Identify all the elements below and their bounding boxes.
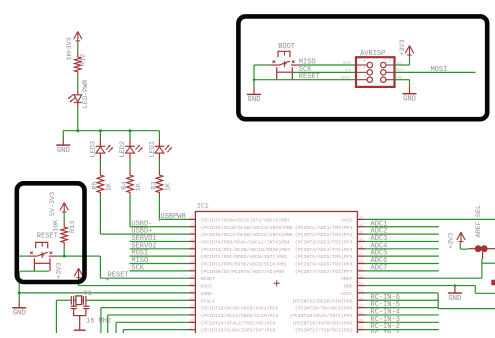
wire row n9 right (365, 285, 475, 287)
svg-text:38: 38 (359, 246, 363, 250)
wire gnd rail (63, 130, 159, 132)
wire switch gnd leg (20, 270, 49, 272)
LED2 emission arrows (136, 145, 140, 150)
resistor R12 (75, 52, 82, 75)
wire net RC-IN-2 (365, 329, 439, 331)
svg-text:AVRISP: AVRISP (360, 50, 385, 58)
svg-text:3: 3 (364, 67, 366, 71)
svg-text:(PCINT4/PDO/OC4A/ADC11/INT4)PB: (PCINT4/PDO/OC4A/ADC11/INT4)PB4 (201, 239, 290, 245)
wire XTAL left segment (56, 299, 71, 301)
svg-text:32: 32 (359, 305, 363, 309)
wire to IC pin row 2 (100, 233, 188, 235)
wire row n13 (108, 314, 189, 316)
wire rail to LED3 (99, 131, 101, 140)
pushbutton S2 BOOT (270, 51, 300, 80)
junction GND/RESET (ISP) (253, 78, 256, 81)
svg-text:13: 13 (190, 224, 194, 228)
wire row n12 down (100, 308, 102, 333)
svg-text:(PCINT0/SS/PCINT0/ADC7/AD)PB0: (PCINT0/SS/PCINT0/ADC7/AD)PB0 (201, 269, 285, 275)
wire GND right down (409, 80, 411, 87)
wire row n12 (101, 307, 189, 309)
+3V3 supply (ISP) (405, 46, 413, 57)
svg-text:RESET: RESET (341, 77, 351, 81)
svg-text:LED3: LED3 (89, 141, 97, 157)
svg-text:41: 41 (359, 224, 363, 228)
svg-text:GND: GND (448, 295, 461, 303)
wire LED2 to R4 (129, 159, 131, 169)
wire net SERVO2 (130, 248, 189, 250)
svg-text:33: 33 (359, 297, 363, 301)
wire net RC-IN-3 (365, 321, 439, 323)
+3V3 supply bottom box (74, 268, 82, 279)
LED1 emission arrows (165, 145, 169, 150)
wire R4 down (129, 196, 131, 227)
svg-text:GND: GND (13, 310, 26, 318)
svg-text:+3V3: +3V3 (66, 37, 74, 53)
svg-text:(PCINT7/ADC7/TDI)PF7: (PCINT7/ADC7/TDI)PF7 (295, 269, 353, 275)
wire net MISO (130, 263, 189, 265)
junction GND/n9 (454, 284, 457, 287)
wire net ADC5 (365, 255, 439, 257)
wire net MOSI (130, 255, 189, 257)
svg-text:R4: R4 (121, 181, 129, 189)
svg-text:16: 16 (190, 246, 194, 250)
svg-text:(PCINT2/ADC2/TDO)PF2: (PCINT2/ADC2/TDO)PF2 (295, 232, 353, 238)
wire row n15 (123, 329, 188, 331)
junction R13/RESET (63, 255, 66, 258)
svg-text:5V-3V3: 5V-3V3 (49, 192, 57, 216)
svg-text:(PCINT15/CLKO/ICP3/INT)PC5: (PCINT15/CLKO/ICP3/INT)PC5 (201, 328, 276, 333)
LED LED2 (125, 140, 135, 160)
svg-text:35: 35 (359, 268, 363, 272)
wire net ADC6 (365, 263, 439, 265)
svg-text:29: 29 (359, 327, 363, 331)
svg-text:UVCC: UVCC (201, 284, 213, 290)
ground G5 (ISP) (403, 86, 417, 103)
svg-text:24: 24 (190, 305, 194, 309)
svg-text:Y1: Y1 (84, 290, 92, 298)
svg-text:15: 15 (190, 238, 194, 242)
svg-text:(PCINT14/XTAL2/TOSC/OC)PC4: (PCINT14/XTAL2/TOSC/OC)PC4 (201, 320, 276, 326)
RESET label origin cross (106, 278, 109, 281)
wire net RC-IN-4 (365, 314, 439, 316)
svg-text:(PCINT20/T0/ADC6)PD5: (PCINT20/T0/ADC6)PD5 (295, 306, 353, 312)
svg-text:+3V3: +3V3 (399, 39, 407, 55)
svg-text:GND: GND (57, 147, 70, 155)
svg-text:BOOT: BOOT (278, 43, 295, 51)
wire n10 exit right (438, 308, 495, 310)
wire net RC-IN-6 (365, 299, 439, 301)
wire RESET (ISP) (254, 79, 356, 81)
svg-text:(PCINT3/ADC3/TDI)PF3: (PCINT3/ADC3/TDI)PF3 (295, 239, 353, 245)
svg-text:(PCINT2/PDI/MOSI/ADC9/INT2)PB2: (PCINT2/PDI/MOSI/ADC9/INT2)PB2 (201, 254, 287, 260)
wire net ADC3 (365, 240, 439, 242)
wire GND row n10 (19, 292, 188, 294)
svg-text:R12: R12 (80, 54, 88, 66)
svg-text:MOSI: MOSI (431, 66, 448, 74)
wire UVCC row (79, 285, 189, 287)
ground G1 (56, 138, 70, 155)
highlight box RESET (bottom left) (17, 183, 85, 282)
5V-3V3 supply (60, 203, 68, 214)
svg-text:(PCINT17/TXD/OC2)PD2: (PCINT17/TXD/OC2)PD2 (295, 328, 353, 333)
wire R3 down (158, 196, 160, 220)
svg-text:(PCINT1/PDO/MISO/ADC8/SCLK)PB1: (PCINT1/PDO/MISO/ADC8/SCLK)PB1 (201, 262, 287, 268)
wire AVCC to edge (365, 218, 495, 220)
wire GND left drop (ISP box) (253, 65, 255, 87)
resistor R13 10K (61, 222, 68, 246)
solder jumper SJ1 AREF-SEL (468, 245, 495, 258)
svg-text:AVCC: AVCC (341, 217, 353, 223)
wire rail to gnd (62, 131, 64, 138)
svg-text:(PCINT18/INT0/SDA)PD3: (PCINT18/INT0/SDA)PD3 (292, 320, 353, 326)
svg-text:USBPWR: USBPWR (161, 213, 187, 221)
junction rail/LED-PWR (76, 129, 79, 132)
wire GND right (ISP) (395, 79, 410, 81)
wire net ADC1 (365, 226, 439, 228)
svg-text:(PCINT19/OC2A/INT1)PD4: (PCINT19/OC2A/INT1)PD4 (289, 313, 352, 319)
svg-text:RESET: RESET (299, 73, 320, 81)
svg-text:30: 30 (359, 319, 363, 323)
wire to BOOT switch (254, 64, 270, 66)
svg-text:17: 17 (190, 253, 194, 257)
IC IC1 body (195, 212, 357, 337)
svg-text:UGND: UGND (201, 291, 213, 297)
wire net ADC4 (365, 248, 439, 250)
resistor R5 1K (97, 170, 104, 196)
wire n10 right down (437, 293, 439, 309)
+3V3 supply P1 (74, 32, 82, 43)
wire R12 to LED-PWR (77, 75, 79, 90)
wire GND left vertical (18, 271, 20, 300)
svg-text:LED2: LED2 (119, 141, 127, 157)
svg-text:25: 25 (190, 312, 194, 316)
ground G3 (448, 286, 462, 303)
wire RESET vertical (99, 256, 101, 278)
svg-text:AREF: AREF (341, 276, 353, 282)
USBPWR label origin cross (158, 218, 161, 221)
wire net RC-IN-5 (365, 307, 439, 309)
svg-text:R13: R13 (69, 221, 77, 233)
wire XTAL right segment (86, 299, 188, 301)
svg-text:R3: R3 (150, 181, 158, 189)
svg-text:1K: 1K (135, 182, 143, 191)
svg-text:(PCINT6/ADC6/TDO)PF6: (PCINT6/ADC6/TDO)PF6 (295, 262, 353, 268)
wire RESET left (19, 255, 28, 257)
wire row n10 right (365, 292, 438, 294)
resistor R4 1K (127, 170, 134, 196)
wire VCC up (409, 56, 411, 65)
svg-text:43: 43 (359, 283, 363, 287)
svg-text:(PCINT5/ADC5/TMS)PF5: (PCINT5/ADC5/TMS)PF5 (295, 254, 353, 260)
+3V3 supply near AREF (457, 232, 465, 243)
ISP pin name labels (341, 60, 405, 81)
svg-text:18: 18 (190, 261, 194, 265)
ground G2 (12, 300, 26, 317)
wire rail to LED1 (158, 131, 160, 140)
svg-text:GND: GND (403, 95, 416, 103)
wire n9 exit right (475, 292, 495, 294)
IC pin stubs, pin numbers and pin names (189, 216, 366, 333)
wire RESET to IC (100, 277, 188, 279)
svg-text:31: 31 (359, 312, 363, 316)
svg-text:40: 40 (359, 231, 363, 235)
svg-text:AREF-SEL: AREF-SEL (475, 205, 483, 238)
svg-text:ADC7: ADC7 (371, 264, 388, 272)
svg-text:6: 6 (389, 74, 391, 78)
wire LED-PWR to rail (77, 109, 79, 131)
svg-text:RESET: RESET (201, 276, 216, 282)
wire R5 down (99, 196, 101, 235)
wire row n15 down (122, 330, 124, 333)
wire +3V3 to R12 (77, 42, 79, 51)
wire net ADC7 (365, 270, 439, 272)
wire LED1 to R3 (158, 159, 160, 169)
svg-text:1K: 1K (164, 182, 172, 191)
wire n9 right down (474, 286, 476, 294)
svg-text:1K: 1K (105, 182, 113, 191)
svg-text:14: 14 (190, 231, 194, 235)
wire UVCC vertical from +3V3 (78, 276, 80, 286)
junction rail/LED2 (129, 129, 132, 132)
svg-text:4: 4 (389, 67, 391, 71)
svg-text:42: 42 (359, 275, 363, 279)
svg-text:39: 39 (359, 238, 363, 242)
svg-text:37: 37 (359, 253, 363, 257)
svg-text:RESET: RESET (37, 232, 58, 240)
wire RESET right inside box (57, 255, 87, 257)
svg-text:IC1: IC1 (197, 203, 209, 210)
wire 3V3 to jumper (460, 248, 468, 250)
svg-text:XTAL1: XTAL1 (201, 298, 216, 304)
svg-text:44: 44 (359, 216, 363, 220)
svg-text:(PCINT1/ADC1/TMS)PF1: (PCINT1/ADC1/TMS)PF1 (295, 225, 353, 231)
svg-text:SCK: SCK (131, 264, 144, 272)
junction n10 (18, 291, 21, 294)
wire VCC (395, 64, 410, 66)
wire MOSI (ISP) (395, 71, 476, 73)
wire MISO (ISP) (300, 64, 357, 66)
wire row n14 down (115, 322, 117, 333)
svg-text:27: 27 (190, 327, 194, 331)
wire row n14 (116, 321, 189, 323)
wire net ADC2 (365, 233, 439, 235)
svg-text:AVCC: AVCC (341, 291, 353, 297)
wire R13 down (63, 246, 65, 257)
svg-text:(PCINT5/OC1A/OC4B/ADC12/INT5)P: (PCINT5/OC1A/OC4B/ADC12/INT5)PB5 (201, 232, 293, 238)
svg-text:36: 36 (359, 261, 363, 265)
svg-text:(PCINT7/OC0A/OC1C/RTS/ADC13)PB: (PCINT7/OC0A/OC1C/RTS/ADC13)PB7 (201, 217, 290, 223)
wire row n13 down (107, 315, 109, 333)
component stub at right edge (491, 280, 495, 286)
wire 3V3 down (459, 243, 461, 249)
svg-text:1: 1 (364, 60, 366, 64)
svg-text:12: 12 (190, 216, 194, 220)
LED-PWR emission arrows (68, 94, 73, 98)
wire to IC pin row 1 (130, 226, 189, 228)
wire AREF vertical (481, 259, 483, 279)
wire SCK (ISP) (292, 71, 356, 73)
svg-text:10K: 10K (52, 219, 60, 232)
svg-text:2: 2 (389, 60, 391, 64)
svg-text:MISO: MISO (343, 62, 351, 66)
wire net SERVO1 (130, 240, 189, 242)
svg-text:20: 20 (190, 275, 194, 279)
LED LED3 (96, 140, 106, 160)
svg-text:GND: GND (248, 96, 261, 104)
connector SV1 AVRISP (356, 57, 395, 87)
svg-text:(PCINT4/ADC4/TCK)PF4: (PCINT4/ADC4/TCK)PF4 (295, 247, 353, 253)
svg-text:(PCINT3/PDI/OC4B/ADC10/MISO)PB: (PCINT3/PDI/OC4B/ADC10/MISO)PB3 (201, 247, 290, 253)
svg-text:+3V3: +3V3 (55, 263, 63, 279)
wire RESET from box (87, 255, 101, 257)
wire AREF branch to edge (482, 262, 495, 264)
svg-text:23: 23 (190, 297, 194, 301)
LED LED-PWR (74, 90, 82, 109)
IC origin cross (274, 280, 280, 286)
svg-text:(PCINT21/OC2B/AIN)PD6: (PCINT21/OC2B/AIN)PD6 (292, 298, 353, 304)
LED3 emission arrows (106, 145, 110, 150)
junction rail/LED3 (99, 129, 102, 132)
svg-text:LED-PWR: LED-PWR (82, 80, 90, 109)
resistor R3 1K (156, 170, 163, 196)
svg-text:19: 19 (190, 268, 194, 272)
svg-text:+3V3: +3V3 (447, 233, 455, 249)
svg-text:RESET: RESET (108, 272, 129, 280)
wire to IC pin row 0 (159, 218, 188, 220)
svg-text:SCK: SCK (345, 69, 352, 73)
svg-text:21: 21 (190, 283, 194, 287)
svg-text:(PCINT6/OC1B/OC4B/ADC13/INT6)P: (PCINT6/OC1B/OC4B/ADC13/INT6)PB6 (201, 225, 293, 231)
highlight box ISP (top right) (238, 16, 487, 119)
svg-text:1K: 1K (66, 51, 74, 60)
svg-text:22: 22 (190, 290, 194, 294)
svg-text:LED1: LED1 (148, 141, 156, 157)
svg-text:R5: R5 (91, 181, 99, 189)
svg-text:GND: GND (344, 284, 353, 290)
wire net SCK (130, 270, 189, 272)
wire XTAL left down (55, 300, 57, 333)
crystal Y1 16MHz with load caps (71, 296, 90, 330)
svg-text:5: 5 (364, 74, 366, 78)
svg-text:(PCINT13/OC1A/ADC8/CLK0)PC3: (PCINT13/OC1A/ADC8/CLK0)PC3 (201, 313, 279, 319)
wire AREF row (365, 277, 482, 279)
wire LED3 to R5 (99, 159, 101, 169)
svg-text:(PCINT12/OC1B/ADC9/XCK1)PC2: (PCINT12/OC1B/ADC9/XCK1)PC2 (201, 306, 279, 312)
ground G4 (ISP) (247, 87, 261, 104)
pushbutton S1 RESET (28, 242, 58, 271)
wire supply to R13 (63, 213, 65, 221)
wire rail to LED2 (129, 131, 131, 140)
svg-text:34: 34 (359, 290, 363, 294)
svg-text:26: 26 (190, 319, 194, 323)
LED LED1 (155, 140, 165, 160)
